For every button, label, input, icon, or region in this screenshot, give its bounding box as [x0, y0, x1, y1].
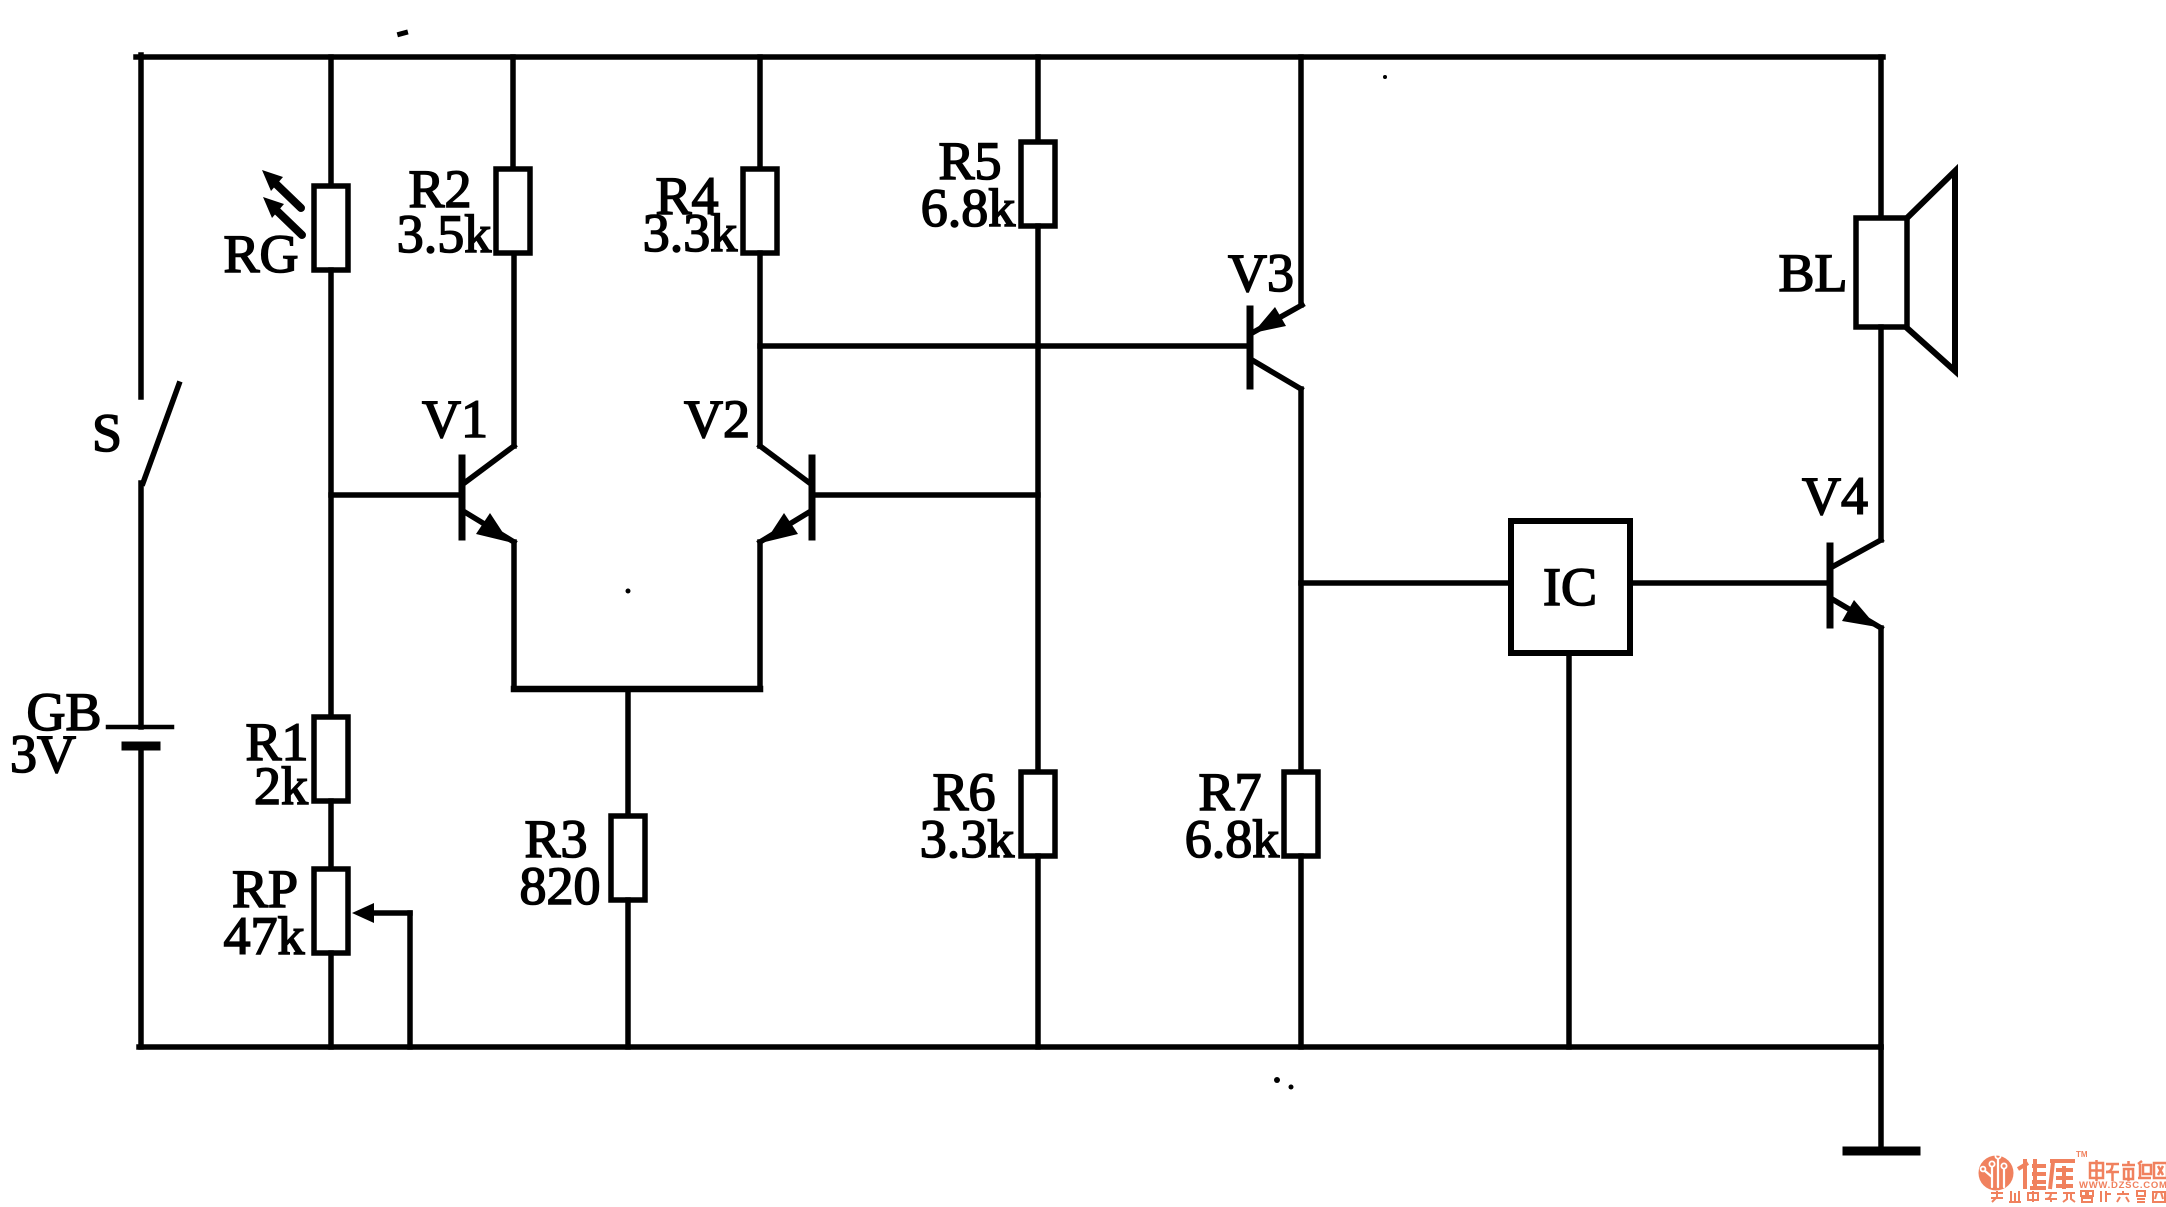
svg-text:RG: RG — [223, 224, 298, 284]
svg-text:3V: 3V — [10, 724, 76, 784]
transistor V2 collector diagonal — [760, 446, 811, 484]
watermark hanzi 库 — [2050, 1161, 2075, 1189]
transistor V3 base bar — [1247, 309, 1254, 386]
svg-text:WWW.DZSC.COM: WWW.DZSC.COM — [2079, 1180, 2166, 1191]
photoresistor RG light arrow 1 head — [262, 170, 283, 191]
op-amp IC box — [1511, 521, 1630, 653]
potentiometer RP wiper arrowhead — [352, 903, 374, 923]
svg-text:V3: V3 — [1228, 243, 1294, 303]
ground bar — [1847, 1147, 1916, 1156]
resistor R6 body — [1021, 772, 1055, 856]
wire bottom ground rail — [139, 1044, 1881, 1050]
photoresistor RG light arrow 1 shaft — [274, 182, 301, 208]
wire V2 emitter down — [757, 542, 763, 689]
wire IC output to V4 base — [1630, 580, 1830, 586]
wire V1 base line — [331, 492, 462, 498]
wire R2 column top — [510, 57, 516, 169]
wire emitter join line V1-V2 — [514, 686, 760, 693]
svg-text:47k: 47k — [224, 906, 305, 966]
potentiometer RP body — [314, 869, 348, 953]
transistor V1 collector diagonal — [463, 446, 514, 484]
wire V1 collector to R2 — [511, 253, 517, 446]
transistor V4 collector diagonal — [1832, 540, 1881, 567]
svg-text:V2: V2 — [684, 389, 750, 449]
watermark hanzi row 电子市场网 — [2090, 1160, 2166, 1181]
wire RG bottom to R1 top (through V1 base node) — [328, 270, 334, 717]
svg-text:S: S — [92, 403, 122, 463]
svg-text:3.3k: 3.3k — [920, 809, 1015, 869]
potentiometer RP wiper shaft — [362, 910, 410, 916]
watermark hanzi 维 — [2018, 1159, 2046, 1189]
svg-text:820: 820 — [520, 856, 601, 916]
svg-text:2k: 2k — [254, 756, 308, 816]
transistor V1 emitter arrowhead — [476, 513, 509, 542]
svg-text:BL: BL — [1778, 243, 1847, 303]
transistor V3 emitter diagonal — [1252, 305, 1302, 333]
wire R7 bottom to ground rail — [1298, 856, 1304, 1047]
svg-text:3.5k: 3.5k — [397, 204, 492, 264]
svg-text:6.8k: 6.8k — [1185, 809, 1280, 869]
transistor V1 emitter diagonal — [463, 511, 514, 542]
battery GB short thick plate — [126, 742, 156, 751]
transistor V2 emitter arrowhead — [765, 513, 798, 542]
wire speaker bottom to V4 collector — [1878, 327, 1884, 540]
wire RP bottom to ground rail — [328, 953, 334, 1047]
svg-text:TM: TM — [2076, 1150, 2088, 1159]
battery GB long plate — [108, 725, 172, 730]
resistor R4 body — [743, 169, 777, 253]
transistor V2 base bar — [809, 458, 816, 537]
speaker BL horn — [1907, 171, 1955, 371]
svg-text:3.3k: 3.3k — [643, 203, 738, 263]
wire V4 emitter down to ground rail — [1878, 628, 1884, 1047]
wire R4 bottom to V2 collector (through V3 base node) — [757, 253, 763, 446]
wire V3 base line — [760, 343, 1250, 349]
wire RG column top — [328, 57, 334, 186]
wire top supply rail — [136, 54, 1883, 60]
wire ground stem — [1878, 1047, 1884, 1148]
photoresistor RG light arrow 2 head — [263, 197, 284, 218]
speaker BL body box — [1856, 218, 1907, 327]
resistor R3 body — [611, 816, 645, 900]
scan speck near V3 top — [1383, 75, 1387, 79]
scan speck top — [397, 30, 409, 38]
wire R3 top — [625, 689, 631, 816]
scan speck bottom middle pair — [1274, 1077, 1280, 1083]
svg-text:IC: IC — [1543, 557, 1597, 617]
wire V1 emitter down — [511, 542, 517, 689]
transistor V4 emitter diagonal — [1832, 599, 1881, 628]
transistor V3 collector diagonal — [1252, 360, 1301, 389]
wire V2 base line — [812, 492, 1038, 498]
wire R6 bottom to ground rail — [1035, 856, 1041, 1047]
transistor V3 emitter arrowhead — [1253, 307, 1286, 333]
wire IC bottom to ground rail — [1566, 653, 1572, 1047]
watermark logo group (dzsc.com) — [1979, 1150, 2166, 1202]
wire V3 collector down to R7 (through IC node) — [1298, 389, 1304, 772]
wire V3 emitter to top rail — [1298, 57, 1304, 305]
photoresistor RG body — [314, 186, 348, 270]
wire speaker top from rail — [1878, 57, 1884, 218]
wire left border mid (switch to battery) — [138, 483, 144, 727]
wire R5 column top — [1035, 57, 1041, 142]
wire R5 bottom to R6 top (through V3 base line and V2 base node) — [1035, 226, 1041, 772]
wire R1 bottom to RP top — [328, 801, 334, 869]
svg-text:V4: V4 — [1802, 466, 1868, 526]
wire RP wiper down to ground rail — [407, 913, 413, 1047]
transistor V4 base bar — [1827, 546, 1834, 625]
resistor R1 body — [314, 717, 348, 801]
svg-text:V1: V1 — [422, 389, 488, 449]
transistor V2 emitter diagonal — [760, 511, 811, 542]
watermark hanzi row 专业电子元器件交易网站 — [1991, 1191, 2165, 1202]
transistor V4 emitter arrowhead — [1842, 600, 1877, 627]
wire left border upper (battery+ to top rail) — [138, 55, 144, 397]
transistor V1 base bar — [459, 458, 466, 537]
svg-text:6.8k: 6.8k — [921, 178, 1016, 238]
photoresistor RG light arrow 2 shaft — [275, 209, 302, 235]
resistor R5 body — [1021, 142, 1055, 226]
wire V3 collector to IC input — [1301, 580, 1511, 586]
wire left border lower (battery- to bottom rail) — [138, 750, 144, 1047]
resistor R7 body — [1284, 772, 1318, 856]
resistor R2 body — [496, 169, 530, 253]
scan speck between V1 V2 — [626, 589, 631, 594]
switch S blade — [143, 384, 179, 483]
wire R4 column top — [757, 57, 763, 169]
wire R3 bottom to ground rail — [625, 900, 631, 1047]
watermark circle icon — [1979, 1156, 2014, 1191]
